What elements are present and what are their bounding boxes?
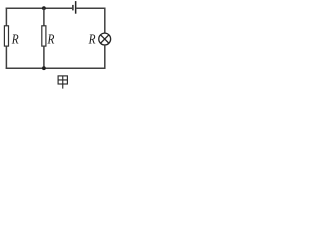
label R (left resistor)	[11, 33, 19, 48]
wire: bottom rail	[6, 67, 106, 69]
svg-text:R: R	[11, 33, 19, 48]
node: junction dot on bottom rail	[42, 66, 46, 70]
battery: short (negative) plate	[72, 5, 74, 10]
resistor R (left branch)	[4, 26, 8, 46]
node: junction dot on top rail	[42, 6, 46, 10]
wire: left branch, upper segment	[5, 8, 7, 27]
label R (middle resistor)	[47, 33, 55, 48]
svg-text:R: R	[47, 33, 55, 48]
wire: top rail, right segment (battery to top-right corner)	[76, 7, 105, 9]
label R (lamp)	[88, 33, 96, 48]
wire: middle branch, lower segment	[43, 46, 45, 68]
lamp: circle with X, on right branch	[99, 33, 111, 45]
label: figure caption character (jia), drawn as strokes	[58, 76, 67, 89]
wire: middle branch, upper segment	[43, 8, 45, 26]
resistor R (middle branch)	[42, 26, 46, 46]
wire: right branch, lower segment	[104, 45, 106, 69]
svg-text:R: R	[88, 33, 96, 48]
wire: top rail, left segment (top-left corner to battery)	[6, 7, 72, 9]
wire: right branch, upper segment	[104, 8, 106, 34]
battery: long (positive) plate	[75, 1, 77, 14]
wire: left branch, lower segment	[5, 46, 7, 69]
